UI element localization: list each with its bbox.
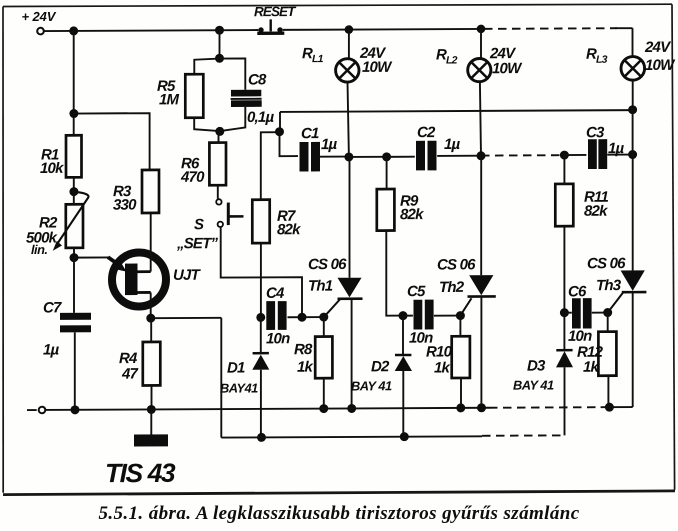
svg-text:BAY 41: BAY 41 (513, 377, 554, 392)
svg-text:10n: 10n (266, 330, 290, 347)
switch RESET (normally-closed pushbutton) (254, 4, 297, 35)
svg-text:C7: C7 (43, 299, 62, 316)
svg-text:5.5.1. ábra. A legklasszikusab: 5.5.1. ábra. A legklasszikusabb tiriszto… (98, 503, 579, 524)
resistor R8 1k (294, 337, 332, 379)
resistor R5 1M (157, 74, 203, 118)
capacitor C4 10n (266, 285, 290, 348)
node Th2 cathode ground (477, 403, 486, 412)
svg-text:1µ: 1µ (43, 341, 60, 358)
svg-text:BAY 41: BAY 41 (351, 378, 392, 393)
svg-text:1M: 1M (159, 91, 180, 108)
svg-text:BAY41: BAY41 (220, 380, 258, 395)
capacitor C2 1u (416, 124, 461, 171)
node C4 right / SET (298, 313, 307, 322)
node R10 ground (456, 403, 465, 412)
wire Th3 anode (632, 155, 634, 271)
wire D3 to pulse line (564, 367, 566, 435)
svg-text:RL1: RL1 (302, 45, 324, 65)
node C6 left (560, 308, 569, 317)
wire top rail left (44, 30, 258, 31)
resistor R7 82k (252, 199, 301, 243)
node Th3 gate / R12 (603, 308, 612, 317)
resistor R10 1k (426, 336, 470, 378)
svg-text:CS 06: CS 06 (587, 255, 626, 272)
svg-text:10W: 10W (645, 57, 676, 74)
svg-text:TIS 43: TIS 43 (105, 458, 176, 488)
wire emitter (74, 256, 110, 258)
svg-text:1µ: 1µ (321, 136, 338, 153)
wire to R5 (194, 59, 219, 75)
svg-text:D1: D1 (227, 359, 245, 376)
svg-text:0,1µ: 0,1µ (247, 109, 274, 126)
resistor R9 82k (377, 189, 424, 231)
capacitor C3 1u (586, 124, 625, 169)
wire pulse line vertical (220, 318, 222, 438)
wire to lamp3 (632, 28, 634, 57)
wire to C2 (387, 156, 415, 158)
wire R1 feed (73, 31, 75, 135)
svg-text:1µ: 1µ (444, 136, 461, 153)
wire lamp1 to anode node (348, 82, 349, 157)
wire D1 to pulse line (260, 370, 262, 438)
node R1-R2 wiper (69, 187, 78, 196)
thyristor Th2 CS06 (437, 256, 496, 315)
wire Th1 anode to R9 tap (349, 156, 387, 158)
wire lamp3 down (632, 80, 634, 109)
node C4 left (256, 313, 265, 322)
node R1/R3 feed (69, 109, 78, 118)
svg-text:10W: 10W (362, 59, 393, 76)
svg-text:82k: 82k (584, 203, 608, 220)
wire R5 bottom (194, 118, 221, 132)
resistor R1 10k (40, 135, 82, 177)
wire pulse line dashed (482, 434, 564, 436)
svg-text:RL2: RL2 (436, 46, 458, 66)
node C7 ground (71, 405, 80, 414)
wire SET to Th1 gate node (221, 227, 302, 317)
resistor R12 1k (577, 332, 616, 376)
diode D1 BAY41 (220, 317, 269, 395)
svg-text:47: 47 (121, 366, 139, 383)
svg-text:330: 330 (113, 197, 137, 214)
wire anode rail (Th3 anode) (280, 110, 633, 112)
svg-text:C8: C8 (248, 71, 267, 88)
wire C8 top (220, 58, 246, 89)
potentiometer R2 500k lin (26, 192, 88, 257)
svg-text:UJT: UJT (173, 267, 202, 284)
node Th1 cathode ground (347, 404, 356, 413)
diode D2 BAY 41 (351, 316, 412, 394)
svg-text:CS 06: CS 06 (437, 256, 476, 273)
node Th2 anode / C2 (477, 151, 486, 160)
wire R5 branch top (219, 30, 221, 58)
wire R3 feed (74, 113, 150, 170)
wire anode rail corner (279, 112, 281, 131)
svg-text:RL3: RL3 (586, 46, 608, 66)
wire pulse line solid (221, 436, 482, 437)
node C5 left (399, 311, 408, 320)
wire to R8 node (302, 316, 324, 318)
wire R9 leads (386, 157, 403, 316)
svg-text:C6: C6 (568, 283, 587, 300)
wire C5 sides (403, 314, 460, 316)
svg-text:RESET: RESET (254, 4, 297, 19)
wire R7 bottom to C4 node (260, 243, 262, 317)
svg-text:R10: R10 (426, 343, 453, 360)
capacitor C7 1u (43, 299, 91, 358)
wire top rail dashed segment (484, 27, 617, 30)
wire Th1 cathode (351, 299, 353, 409)
svg-text:S: S (194, 216, 204, 233)
wire base1 to pulse line (151, 317, 222, 319)
svg-text:CS 06: CS 06 (308, 256, 347, 273)
resistor R6 470 (180, 143, 226, 186)
node top rail R5 branch (215, 26, 224, 35)
capacitor C6 10n (568, 283, 592, 345)
wire R7 link (261, 132, 280, 199)
node rail/R7/C1 (275, 127, 284, 136)
node R5/C8 bottom (215, 127, 224, 136)
capacitor C5 10n (407, 283, 434, 347)
svg-text:82k: 82k (400, 206, 424, 223)
wire C8 bottom (221, 107, 245, 131)
svg-text:1k: 1k (434, 359, 451, 376)
thyristor Th3 CS06 (587, 255, 646, 313)
svg-text:lin.: lin. (31, 242, 47, 257)
wire Th2 anode down (480, 156, 482, 275)
svg-text:10n: 10n (568, 328, 592, 345)
node R11 tap (560, 151, 569, 160)
node R4 ground rail (147, 405, 156, 414)
node R2/C7/emitter (70, 253, 79, 262)
node R9 tap (382, 152, 391, 161)
wire base2 to R3 (150, 213, 152, 272)
wire ground rail right (601, 406, 633, 408)
node anode rail end (628, 105, 637, 114)
svg-text:„SET”: „SET” (176, 235, 218, 252)
wire R1 to R2 (73, 177, 75, 204)
wire D2 to pulse line (402, 371, 404, 437)
ground rail terminal (27, 409, 37, 411)
wire C4 right (288, 316, 303, 318)
wire R6 leads (217, 131, 220, 198)
wire C1 right to Th1 anode (320, 156, 349, 158)
wire Th3 cathode (632, 292, 634, 407)
node base1 (146, 314, 155, 323)
node Th1 anode / C1 (344, 152, 353, 161)
wire to C3 (564, 154, 586, 156)
svg-text:1k: 1k (297, 359, 314, 376)
diode D3 BAY 41 (513, 313, 573, 393)
node R8 ground (319, 404, 328, 413)
capacitor C8 0,1u (231, 71, 275, 126)
wire ground rail dashed (489, 406, 601, 409)
svg-text:Th3: Th3 (596, 277, 622, 294)
wire C3 right (607, 154, 632, 156)
lamp RL1 24V 10W (302, 29, 393, 82)
svg-text:D3: D3 (527, 357, 546, 374)
svg-text:C1: C1 (301, 125, 319, 142)
thyristor Th1 CS06 (308, 256, 363, 317)
wire anode node to Th1 (349, 157, 351, 278)
svg-text:10k: 10k (40, 160, 64, 177)
node Th1 gate / R8 (319, 313, 328, 322)
wire R2 to C7/emitter node (73, 248, 75, 258)
lamp RL3 24V 10W (586, 39, 676, 81)
+24V supply terminal (37, 28, 44, 35)
node top rail lamp2 (477, 25, 486, 34)
resistor R11 82k (555, 184, 608, 227)
svg-text:1k: 1k (583, 359, 600, 376)
wire C2 right (437, 155, 481, 157)
node D2 pulse (400, 432, 409, 441)
svg-text:R8: R8 (294, 341, 313, 358)
wire C6 sides (564, 311, 607, 313)
svg-text:C5: C5 (407, 283, 426, 300)
wire base1 down (150, 292, 152, 318)
wire top rail middle (283, 28, 482, 31)
wire Th2 cathode (480, 296, 482, 407)
wire R11 leads (563, 155, 565, 313)
svg-text:D2: D2 (371, 358, 390, 375)
node C3 right / Th3 anode (628, 150, 637, 159)
wire ground rail solid (45, 408, 489, 410)
node Th2 gate / R10 (456, 311, 465, 320)
wire R12 leads (607, 313, 610, 408)
svg-text:470: 470 (180, 169, 205, 186)
node R12 ground (605, 403, 614, 412)
wire anode line dashed (Th2 to C3) (481, 154, 564, 156)
wire C7 to ground rail (74, 332, 76, 410)
svg-text:+ 24V: + 24V (22, 9, 57, 24)
wire to ground symbol (150, 409, 152, 434)
svg-text:24V: 24V (644, 39, 672, 56)
node R5/C8 top (215, 54, 224, 63)
svg-text:82k: 82k (277, 221, 301, 238)
wire node to C7 (73, 258, 75, 313)
svg-text:Th2: Th2 (439, 279, 465, 296)
lamp RL2 24V 10W (436, 29, 523, 82)
svg-text:Th1: Th1 (308, 278, 333, 295)
ground (134, 434, 168, 446)
wire lamp3 to C3 node (632, 110, 634, 155)
wire lamp2 down (480, 82, 481, 156)
svg-text:C2: C2 (417, 124, 436, 141)
node top rail lamp1 (345, 25, 354, 34)
resistor R3 330 (113, 170, 159, 214)
node D1 pulse (257, 433, 266, 442)
wire R10 leads (459, 316, 462, 408)
svg-text:10W: 10W (492, 60, 523, 77)
switch S SET (176, 199, 244, 252)
wire R8 leads (323, 317, 325, 409)
node top rail R1 feed (69, 26, 78, 35)
svg-text:C3: C3 (586, 124, 605, 141)
wire node to C1 (280, 132, 299, 157)
transistor UJT TIS43 (108, 252, 202, 306)
svg-text:C4: C4 (266, 285, 285, 302)
capacitor C1 1u (300, 125, 338, 171)
wire R4 leads (150, 318, 152, 409)
resistor R4 47 (119, 342, 160, 386)
